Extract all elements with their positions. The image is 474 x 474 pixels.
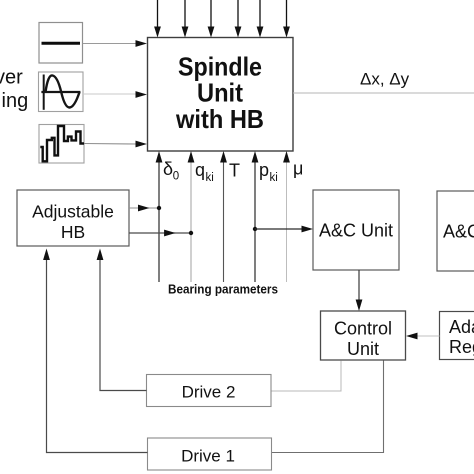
svg-text:ver: ver bbox=[0, 67, 23, 89]
top input arrow 5 bbox=[257, 0, 264, 38]
label: Power loading (clipped at left edge) bbox=[0, 67, 28, 113]
bearing parameter arrow 3 (T) bbox=[220, 151, 240, 282]
block: A&C Unit (second, clipped) bbox=[437, 191, 474, 271]
svg-text:T: T bbox=[229, 161, 240, 181]
bearing parameter arrow 1 (delta0) bbox=[156, 151, 180, 282]
source block: sine signal box bbox=[39, 72, 84, 112]
wire: constant box to spindle bbox=[83, 40, 148, 47]
output line dx dy bbox=[293, 70, 474, 94]
svg-text:Adaptive: Adaptive bbox=[449, 317, 474, 337]
source block: constant signal box bbox=[39, 23, 83, 64]
svg-text:q: q bbox=[195, 160, 205, 180]
block: Adjustable HB bbox=[17, 190, 129, 246]
top input arrow 4 bbox=[235, 0, 242, 38]
svg-text:A&C Unit: A&C Unit bbox=[319, 221, 393, 241]
wire: Drive 1 feedback to Adjustable HB bbox=[43, 249, 147, 453]
block: Spindle Unit with HB bbox=[148, 38, 294, 152]
bearing parameter arrow 5 (mu) bbox=[283, 151, 303, 282]
bearing parameter arrow 4 (p_ki) bbox=[252, 151, 278, 282]
wire: Control Unit to Drive 2 bbox=[271, 361, 341, 392]
source block: random signal box bbox=[39, 125, 84, 164]
wire: Adjustable HB to delta0 line bbox=[129, 205, 161, 212]
wire: Drive 2 feedback to Adjustable HB bbox=[97, 249, 147, 391]
svg-text:Drive 1: Drive 1 bbox=[181, 447, 235, 466]
top input arrow 6 bbox=[283, 0, 290, 38]
svg-text:Adjustable: Adjustable bbox=[32, 202, 114, 222]
svg-text:0: 0 bbox=[173, 171, 179, 183]
bearing parameter arrow 2 (q_ki) bbox=[188, 151, 214, 282]
svg-text:Drive 2: Drive 2 bbox=[182, 383, 236, 402]
wire: p_ki node to A&C Unit bbox=[253, 226, 313, 233]
svg-text:ing: ing bbox=[2, 90, 29, 112]
block: Control Unit bbox=[321, 311, 406, 360]
svg-text:δ: δ bbox=[163, 159, 173, 179]
block: Drive 1 bbox=[148, 438, 272, 470]
block: Adaptive Regulator (clipped) bbox=[440, 312, 474, 360]
block: A&C Unit bbox=[313, 190, 399, 270]
wire: Control Unit to Drive 1 bbox=[272, 361, 384, 453]
top input arrow 2 bbox=[182, 0, 189, 38]
wire: random box to spindle bbox=[84, 141, 147, 148]
wire: Adaptive Regulator to Control Unit bbox=[406, 333, 440, 340]
block: Drive 2 bbox=[147, 375, 272, 407]
svg-text:μ: μ bbox=[293, 159, 303, 179]
svg-text:ki: ki bbox=[206, 172, 214, 184]
wire: Adjustable HB to q_ki line bbox=[129, 230, 193, 237]
top input arrow 1 bbox=[154, 0, 161, 38]
svg-text:Control: Control bbox=[334, 319, 392, 339]
wire: A&C Unit down to Control Unit bbox=[356, 270, 363, 311]
svg-text:Unit: Unit bbox=[347, 339, 379, 359]
svg-text:HB: HB bbox=[61, 222, 85, 242]
svg-text:ki: ki bbox=[270, 172, 278, 184]
top input arrow 3 bbox=[208, 0, 215, 38]
svg-text:Bearing parameters: Bearing parameters bbox=[168, 283, 278, 297]
svg-text:with HB: with HB bbox=[175, 104, 264, 134]
svg-text:A&C Unit: A&C Unit bbox=[443, 222, 474, 242]
svg-text:p: p bbox=[259, 160, 269, 180]
wire: sine box to spindle bbox=[83, 91, 147, 98]
svg-text:Regulator: Regulator bbox=[449, 337, 474, 357]
svg-text:Unit: Unit bbox=[197, 78, 243, 108]
svg-text:Δx, Δy: Δx, Δy bbox=[360, 70, 410, 89]
